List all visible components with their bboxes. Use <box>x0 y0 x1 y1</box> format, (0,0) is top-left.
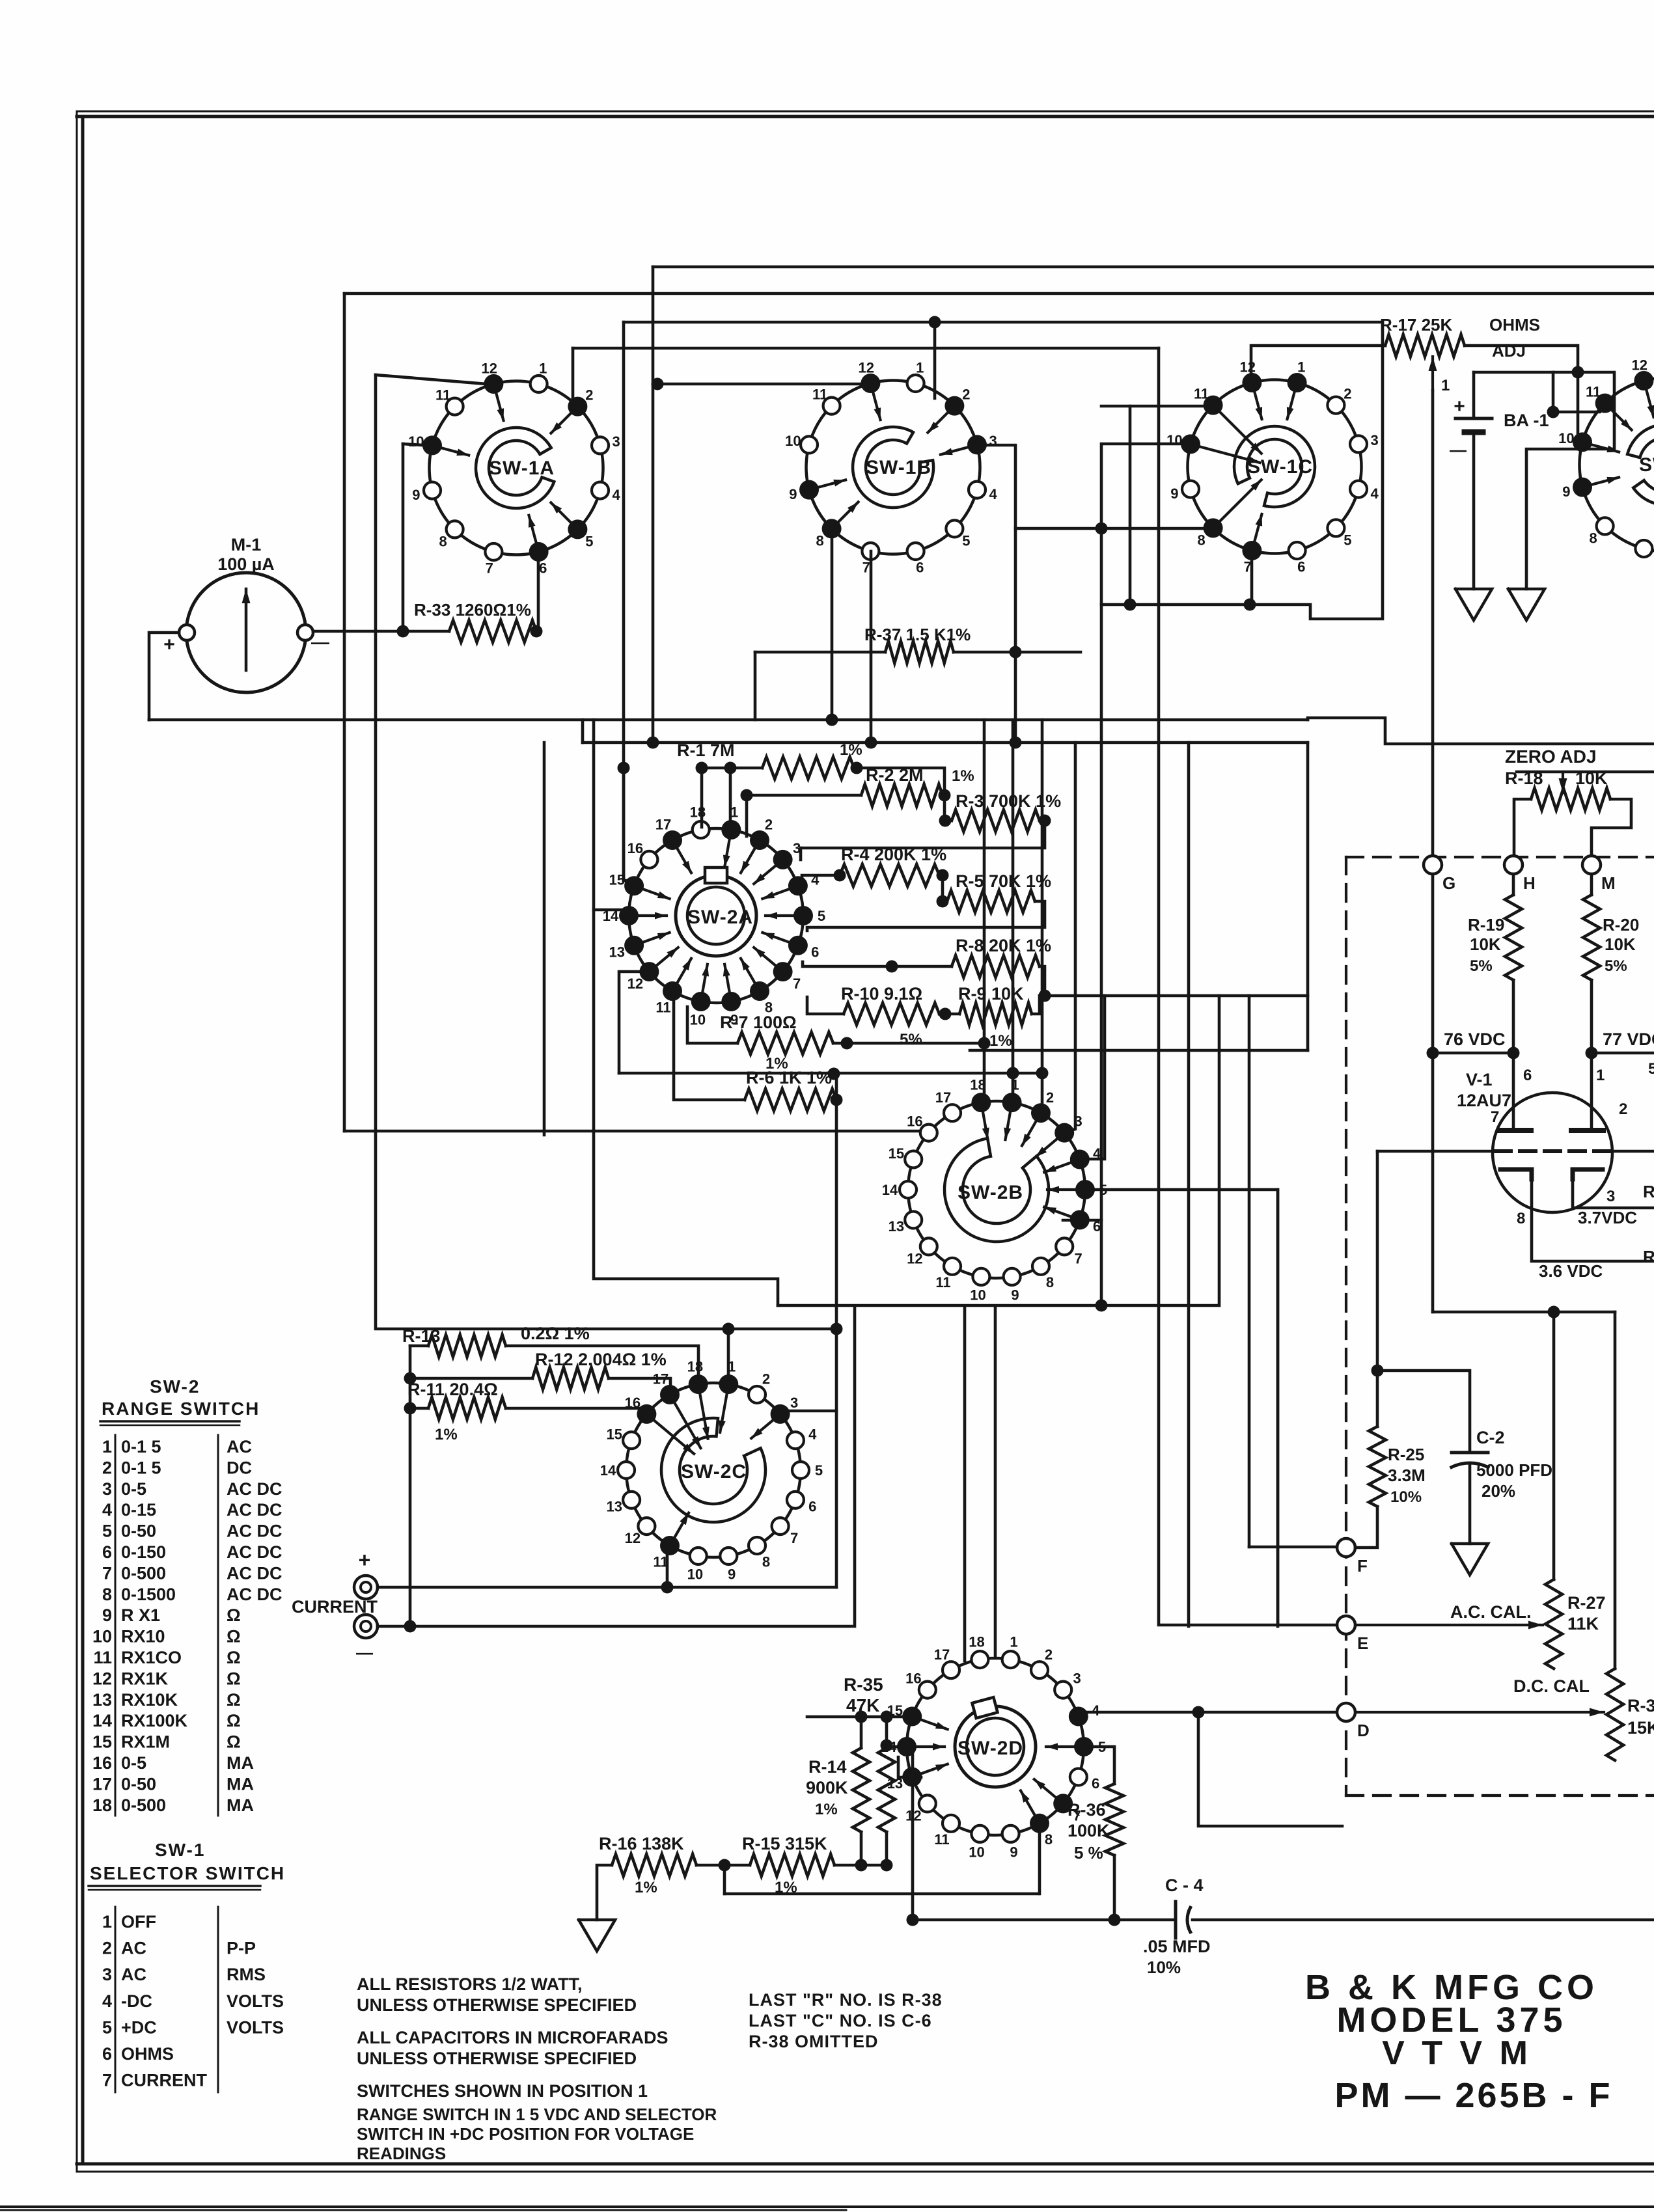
wire <box>943 794 944 797</box>
svg-text:6: 6 <box>1092 1775 1099 1792</box>
ground <box>1455 589 1492 620</box>
wire <box>1512 980 1515 1053</box>
svg-text:13: 13 <box>889 1218 904 1235</box>
wire <box>581 720 585 743</box>
svg-text:D: D <box>1357 1721 1370 1740</box>
node junction <box>841 1037 853 1050</box>
svg-text:SW-2D: SW-2D <box>958 1738 1023 1759</box>
svg-text:CURRENT: CURRENT <box>292 1597 378 1617</box>
svg-text:R-37 1.5 K1%: R-37 1.5 K1% <box>864 625 971 644</box>
wire <box>583 741 1308 744</box>
svg-text:R-33 1260Ω1%: R-33 1260Ω1% <box>414 600 531 620</box>
svg-text:+: + <box>163 634 175 655</box>
svg-text:17: 17 <box>92 1774 112 1794</box>
svg-text:100K: 100K <box>1068 1821 1110 1840</box>
terminal M <box>1582 856 1616 893</box>
wire <box>376 375 494 385</box>
svg-text:8: 8 <box>1517 1210 1525 1227</box>
resistor R-35 <box>844 1674 883 1832</box>
svg-text:C - 4: C - 4 <box>1165 1876 1204 1895</box>
svg-text:3.7VDC: 3.7VDC <box>1578 1208 1637 1227</box>
notes capacitors <box>357 2028 668 2068</box>
wire <box>343 294 346 1131</box>
wire <box>344 1130 929 1133</box>
node junction <box>1547 406 1560 418</box>
node junction <box>1548 1306 1560 1318</box>
wire <box>755 651 885 654</box>
svg-text:BA -1: BA -1 <box>1504 411 1549 430</box>
svg-text:0-5: 0-5 <box>121 1479 146 1499</box>
node junction <box>855 1859 868 1872</box>
svg-text:2: 2 <box>1344 386 1351 402</box>
svg-text:5000 PFD: 5000 PFD <box>1476 1460 1552 1480</box>
label CURRENT <box>292 1597 378 1617</box>
wire <box>778 996 1219 1305</box>
wire <box>573 347 1159 350</box>
resistor R-11 <box>407 1380 506 1443</box>
svg-text:8: 8 <box>102 1585 112 1604</box>
svg-text:0-5: 0-5 <box>121 1753 146 1773</box>
wire <box>860 1717 863 1748</box>
svg-text:0-50: 0-50 <box>121 1774 156 1794</box>
svg-text:R-20: R-20 <box>1603 915 1639 935</box>
label 3.6VDC <box>1539 1261 1603 1281</box>
resistor R-3 <box>952 791 1061 832</box>
wire <box>410 1377 532 1380</box>
wire <box>1592 1052 1654 1055</box>
svg-text:SW-1B: SW-1B <box>866 457 931 478</box>
resistor R-33 <box>414 600 536 642</box>
svg-text:6: 6 <box>1297 559 1305 575</box>
node junction <box>404 1620 417 1633</box>
svg-text:11: 11 <box>934 1831 949 1848</box>
svg-text:12: 12 <box>1240 359 1256 375</box>
svg-text:12: 12 <box>1632 357 1647 373</box>
node junction <box>1007 1067 1019 1080</box>
notes last r <box>749 1990 943 2051</box>
svg-text:P-P: P-P <box>227 1939 256 1958</box>
svg-text:2: 2 <box>102 1939 112 1958</box>
wire <box>696 1864 750 1867</box>
svg-text:R-7 100Ω: R-7 100Ω <box>720 1013 797 1032</box>
svg-text:5: 5 <box>102 2017 112 2037</box>
svg-text:7: 7 <box>793 976 801 992</box>
svg-text:1%: 1% <box>435 1426 458 1443</box>
wire <box>994 1307 997 1658</box>
svg-text:—: — <box>311 632 329 652</box>
label 76 VDC <box>1444 1030 1506 1049</box>
wire <box>833 1042 984 1045</box>
wire <box>624 879 633 882</box>
svg-text:2: 2 <box>1046 1089 1054 1106</box>
wire <box>1192 1918 1654 1922</box>
svg-text:12: 12 <box>92 1669 112 1688</box>
wire <box>619 972 649 1073</box>
svg-text:10%: 10% <box>1390 1488 1422 1506</box>
svg-text:D.C. CAL: D.C. CAL <box>1513 1676 1590 1696</box>
wire <box>854 768 944 821</box>
svg-text:100 µA: 100 µA <box>217 554 275 574</box>
wire <box>313 630 449 633</box>
svg-text:13: 13 <box>607 1498 622 1514</box>
svg-text:0-1 5: 0-1 5 <box>121 1437 161 1456</box>
wire <box>1032 996 1040 1014</box>
svg-text:1%: 1% <box>952 767 974 785</box>
wire <box>911 1745 915 1920</box>
wire <box>939 1013 959 1016</box>
svg-text:H: H <box>1523 873 1536 893</box>
wire <box>831 528 834 720</box>
ground <box>579 1920 615 1951</box>
svg-text:10: 10 <box>785 433 801 449</box>
wire <box>1015 527 1213 530</box>
wire <box>619 1072 1042 1075</box>
table SW-2 rows <box>92 1435 283 1816</box>
wire <box>885 1832 889 1865</box>
svg-text:VOLTS: VOLTS <box>227 1991 284 2011</box>
terminal CURRENT + <box>354 1548 378 1599</box>
svg-text:5: 5 <box>1344 532 1351 548</box>
cal arrow <box>1357 1621 1543 1630</box>
svg-text:10%: 10% <box>1147 1958 1181 1977</box>
svg-text:9: 9 <box>1170 485 1178 502</box>
svg-text:AC DC: AC DC <box>227 1500 283 1520</box>
svg-text:4: 4 <box>102 1500 112 1520</box>
resistor R-6 <box>745 1068 836 1111</box>
svg-text:Ω: Ω <box>227 1732 241 1752</box>
svg-text:6: 6 <box>916 560 924 576</box>
svg-text:9: 9 <box>1562 484 1570 500</box>
wire <box>1198 1712 1342 1826</box>
wire <box>939 875 943 901</box>
wire <box>1592 799 1631 856</box>
svg-text:14: 14 <box>92 1711 112 1730</box>
svg-text:R-: R- <box>1643 1247 1654 1266</box>
svg-text:5: 5 <box>962 532 970 549</box>
svg-text:12: 12 <box>482 360 497 376</box>
svg-text:4: 4 <box>1370 485 1379 502</box>
svg-text:8: 8 <box>1589 530 1597 546</box>
svg-text:Ω: Ω <box>227 1690 241 1710</box>
svg-text:ALL CAPACITORS IN MICROFARA: ALL CAPACITORS IN MICROFARADS <box>357 2028 668 2047</box>
capacitor C-2 <box>1452 1428 1552 1501</box>
wire <box>687 1007 737 1043</box>
wire <box>702 767 762 770</box>
svg-text:Ω: Ω <box>227 1648 241 1667</box>
wire <box>1474 372 1614 589</box>
resistor R-16 <box>599 1834 696 1896</box>
svg-text:5: 5 <box>815 1462 823 1479</box>
svg-text:8: 8 <box>762 1553 770 1570</box>
node junction <box>1096 523 1108 535</box>
svg-text:5: 5 <box>585 533 593 549</box>
svg-text:3.6 VDC: 3.6 VDC <box>1539 1261 1603 1281</box>
node junction <box>723 1323 735 1335</box>
svg-text:SW-2: SW-2 <box>150 1376 200 1397</box>
svg-text:RX1CO: RX1CO <box>121 1648 182 1667</box>
wire <box>1512 874 1515 895</box>
wire <box>835 1073 838 1587</box>
rotary switch SW-2D <box>881 1634 1106 1861</box>
svg-text:Ω: Ω <box>227 1669 241 1688</box>
svg-text:8: 8 <box>1197 532 1205 548</box>
node junction <box>1124 599 1137 611</box>
svg-text:9: 9 <box>412 487 420 503</box>
wire <box>807 997 844 1014</box>
svg-text:6: 6 <box>102 2044 112 2064</box>
svg-text:AC: AC <box>227 1437 252 1456</box>
svg-text:R-11 20.4Ω: R-11 20.4Ω <box>407 1380 498 1399</box>
svg-text:6: 6 <box>808 1498 816 1514</box>
resistor R-18 <box>1505 769 1610 810</box>
terminal E <box>1337 1616 1368 1653</box>
cal arrow <box>1357 1708 1604 1717</box>
node junction <box>828 1068 840 1080</box>
wire <box>378 1586 836 1589</box>
svg-text:R-10 9.1Ω: R-10 9.1Ω <box>841 984 922 1004</box>
wire <box>898 1757 921 1777</box>
svg-text:MA: MA <box>227 1796 254 1815</box>
svg-text:900K: 900K <box>806 1778 848 1797</box>
wire <box>1084 1711 1337 1714</box>
node junction <box>661 1581 674 1594</box>
svg-text:OHMS: OHMS <box>1489 315 1540 335</box>
resistor R-9 <box>958 984 1032 1050</box>
wire <box>1250 551 1254 605</box>
resistor R-2 <box>861 765 974 806</box>
svg-text:SW-1C: SW-1C <box>1247 456 1313 478</box>
wire <box>376 375 834 1329</box>
terminal G <box>1424 856 1455 893</box>
node junction <box>907 1914 919 1926</box>
wire <box>747 795 861 836</box>
resistor R-7 <box>720 1013 833 1072</box>
wire <box>1377 1150 1495 1153</box>
wire <box>1610 1150 1654 1153</box>
wire <box>1129 406 1132 605</box>
svg-text:18: 18 <box>687 1359 703 1375</box>
resistor R-14 <box>878 1748 895 1832</box>
node junction <box>696 762 708 774</box>
svg-text:1%: 1% <box>989 1032 1012 1050</box>
wire <box>860 1832 863 1865</box>
svg-text:2: 2 <box>765 817 773 833</box>
wire <box>1532 1178 1654 1261</box>
svg-text:RANGE SWITCH: RANGE SWITCH <box>102 1399 260 1419</box>
wire <box>799 848 803 860</box>
svg-text:Ω: Ω <box>227 1711 241 1730</box>
svg-text:1: 1 <box>539 360 547 376</box>
wire <box>148 718 151 722</box>
resistor R-20 <box>1583 895 1639 980</box>
svg-text:16: 16 <box>905 1671 921 1687</box>
table SW-1 rows <box>102 1907 284 2092</box>
svg-text:4: 4 <box>808 1427 817 1443</box>
wire <box>1065 743 1075 1132</box>
svg-text:R-4 200K 1%: R-4 200K 1% <box>841 845 946 864</box>
wire <box>1101 405 1213 408</box>
svg-text:R-2 2M: R-2 2M <box>866 765 924 785</box>
svg-text:6: 6 <box>1523 1067 1532 1084</box>
node junction <box>647 737 659 749</box>
svg-text:LAST "C" NO. IS C-6: LAST "C" NO. IS C-6 <box>749 2011 932 2030</box>
svg-text:R-3: R-3 <box>1627 1696 1654 1715</box>
rotary switch SW-1B <box>785 359 997 575</box>
svg-text:ZERO ADJ: ZERO ADJ <box>1505 746 1597 767</box>
svg-text:9: 9 <box>789 486 797 502</box>
svg-text:5%: 5% <box>1605 957 1627 975</box>
svg-text:1%: 1% <box>840 741 862 759</box>
wire <box>913 1918 1173 1922</box>
resistor R-17 <box>1380 315 1540 361</box>
wire <box>970 1049 1308 1052</box>
resistor R-27 <box>1545 1579 1606 1669</box>
svg-text:RANGE SWITCH IN 1 5 VDC AN: RANGE SWITCH IN 1 5 VDC AND SELECTOR <box>357 2105 717 2124</box>
svg-text:14: 14 <box>600 1462 616 1479</box>
svg-text:R-17 25K: R-17 25K <box>1380 315 1452 335</box>
wire <box>1573 1178 1654 1208</box>
svg-text:18: 18 <box>690 804 706 821</box>
wire <box>1590 980 1593 1053</box>
svg-text:2: 2 <box>762 1371 770 1387</box>
svg-text:9: 9 <box>1011 1287 1019 1304</box>
svg-text:Ω: Ω <box>227 1627 241 1646</box>
node junction <box>937 895 949 908</box>
rotary switch SW-1A <box>408 360 620 576</box>
wire <box>700 768 704 827</box>
node junction <box>939 789 951 802</box>
svg-text:SW-1: SW-1 <box>1639 454 1654 476</box>
node junction <box>855 1711 868 1723</box>
node junction <box>939 1008 952 1020</box>
svg-text:0-1500: 0-1500 <box>121 1585 176 1604</box>
terminal D <box>1337 1703 1370 1740</box>
wire <box>609 1378 670 1397</box>
wire <box>976 445 1015 743</box>
svg-text:1%: 1% <box>815 1801 838 1818</box>
svg-text:10: 10 <box>687 1566 703 1583</box>
svg-text:AC DC: AC DC <box>227 1542 283 1562</box>
tube V-1 12AU7 <box>1457 1067 1627 1227</box>
svg-text:.05 MFD: .05 MFD <box>1143 1937 1211 1956</box>
svg-text:R-35: R-35 <box>844 1674 883 1695</box>
svg-text:MODEL 375: MODEL 375 <box>1336 2000 1566 2040</box>
svg-text:5: 5 <box>818 908 825 924</box>
svg-text:MA: MA <box>227 1753 254 1773</box>
wire <box>1465 346 1578 442</box>
svg-text:10: 10 <box>408 433 424 450</box>
wire <box>802 875 840 886</box>
wire <box>1512 1053 1515 1130</box>
svg-text:R-25: R-25 <box>1388 1445 1424 1464</box>
resistor R-25 <box>1369 1427 1426 1507</box>
svg-text:MA: MA <box>227 1774 254 1794</box>
svg-text:+: + <box>359 1548 371 1572</box>
svg-text:8: 8 <box>1046 1274 1054 1290</box>
label R partial <box>1643 1182 1654 1266</box>
node junction <box>1096 1300 1108 1312</box>
svg-text:+: + <box>1454 396 1465 417</box>
svg-text:R X1: R X1 <box>121 1605 160 1625</box>
svg-text:7: 7 <box>102 1563 112 1583</box>
wire <box>1012 720 1015 1102</box>
svg-text:7: 7 <box>1074 1250 1082 1266</box>
wire <box>657 383 871 386</box>
svg-text:12: 12 <box>625 1530 641 1546</box>
svg-text:11: 11 <box>1194 386 1209 402</box>
svg-text:1: 1 <box>1441 377 1450 394</box>
wire <box>409 1346 412 1626</box>
svg-text:13: 13 <box>92 1690 112 1710</box>
terminal F <box>1337 1538 1368 1576</box>
wire <box>506 1408 644 1413</box>
svg-text:12AU7: 12AU7 <box>1457 1091 1511 1110</box>
wire <box>1552 1312 1556 1579</box>
svg-text:3: 3 <box>1073 1671 1081 1687</box>
wire <box>410 1345 428 1348</box>
svg-text:OFF: OFF <box>121 1912 156 1932</box>
wire <box>378 1307 855 1626</box>
svg-text:10: 10 <box>690 1012 706 1028</box>
wire <box>1590 1053 1593 1130</box>
wire <box>1249 1546 1337 1549</box>
wire <box>723 1865 726 1894</box>
wire <box>870 551 873 743</box>
svg-text:G: G <box>1442 873 1455 893</box>
svg-text:READINGS: READINGS <box>357 2144 446 2163</box>
node junction <box>1109 1914 1121 1926</box>
svg-text:12: 12 <box>627 976 643 992</box>
svg-text:7: 7 <box>1491 1108 1499 1126</box>
svg-text:V-1: V-1 <box>1466 1070 1493 1089</box>
svg-text:SW-1A: SW-1A <box>489 457 555 479</box>
wire <box>1084 1747 1114 1784</box>
node junction <box>1010 737 1022 749</box>
wire <box>1038 1824 1041 1894</box>
node junction <box>978 1037 991 1050</box>
svg-text:16: 16 <box>627 840 643 856</box>
wire <box>1468 1464 1472 1544</box>
meter M1 <box>163 535 329 692</box>
rotary switch SW-2C <box>600 1359 823 1583</box>
wire <box>1248 996 1251 1547</box>
resistor R-1 <box>677 741 862 779</box>
svg-text:R-38 OMITTED: R-38 OMITTED <box>749 2032 879 2051</box>
svg-text:SW-2A: SW-2A <box>687 907 753 928</box>
svg-text:3: 3 <box>1606 1188 1615 1205</box>
svg-text:7: 7 <box>862 560 870 576</box>
title B&K MFG CO <box>1305 1968 1613 2115</box>
svg-text:11: 11 <box>812 387 827 403</box>
wire <box>344 292 1654 295</box>
svg-text:7: 7 <box>790 1530 798 1546</box>
svg-text:AC DC: AC DC <box>227 1479 283 1499</box>
wire <box>1431 390 1435 856</box>
wire <box>801 821 1045 848</box>
wire <box>1552 372 1555 412</box>
wire <box>1101 444 1191 1305</box>
svg-text:10: 10 <box>970 1287 986 1304</box>
svg-text:OHMS: OHMS <box>121 2044 174 2064</box>
notes resistors <box>357 1974 637 2015</box>
resistor R-12 <box>532 1350 667 1389</box>
svg-text:17: 17 <box>934 1646 950 1663</box>
svg-text:+DC: +DC <box>121 2017 157 2037</box>
wire <box>149 718 1308 722</box>
wire <box>954 651 1081 654</box>
label A.C. CAL. <box>1450 1602 1532 1622</box>
wire <box>1472 372 1476 418</box>
